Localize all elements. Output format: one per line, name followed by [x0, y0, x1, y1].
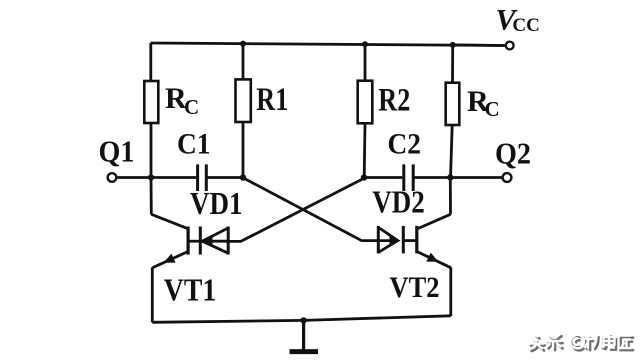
svg-text:C2: C2 — [388, 128, 422, 161]
label RC (right) — [467, 85, 500, 121]
junction: R1-C1 node — [240, 174, 246, 180]
transistor VT1 — [151, 214, 188, 267]
wire: left RC top lead — [149, 43, 152, 82]
wire: R1 top lead — [242, 44, 245, 80]
diode VD2 — [378, 226, 403, 254]
svg-text:Q2: Q2 — [495, 136, 531, 171]
junction: ground node — [300, 317, 306, 323]
svg-text:R2: R2 — [378, 83, 410, 119]
svg-text:Q1: Q1 — [99, 134, 135, 169]
svg-text:CC: CC — [512, 15, 539, 36]
wire: Q1 to C1 left plate — [117, 176, 196, 179]
wire: diagonal from R2 node to VD1 anode — [228, 178, 364, 241]
svg-text:C: C — [184, 95, 199, 119]
resistor R2 — [358, 81, 373, 124]
wire: left RC bottom lead — [150, 123, 153, 178]
wire: Vcc top rail — [151, 43, 506, 46]
resistor R1 — [236, 79, 251, 122]
junction: Q1 node — [148, 174, 154, 180]
wire: bottom emitter rail — [152, 316, 451, 323]
wire: R2 top lead — [364, 44, 367, 81]
watermark — [529, 334, 633, 351]
svg-text:R1: R1 — [256, 82, 288, 118]
wire: VD2 cathode to VT2 base — [403, 239, 417, 242]
wire: Q2 node to VT2 collector — [449, 178, 452, 215]
wire: VD1 cathode to VT1 base — [188, 240, 200, 243]
svg-text:VD1: VD1 — [190, 185, 243, 221]
resistor RC (right) — [446, 83, 460, 125]
wire: R2 bottom lead — [363, 123, 367, 178]
wire: Q1 node to VT1 collector — [150, 178, 153, 215]
svg-text:C: C — [485, 97, 500, 121]
wire: C1 right plate to R1 node — [208, 176, 244, 179]
svg-text:VT1: VT1 — [164, 272, 217, 308]
junction: R2-C2 node — [361, 174, 367, 180]
junction: rail-R2 — [362, 41, 368, 47]
label Vcc — [496, 3, 540, 36]
wire: C2 right plate to Q2 terminal — [414, 176, 502, 179]
wire: right RC top lead — [451, 45, 454, 84]
ground — [290, 320, 319, 351]
wire: right RC bottom lead — [451, 125, 453, 178]
capacitor C1 — [198, 164, 207, 191]
svg-text:VD2: VD2 — [372, 184, 425, 220]
transistor VT2 — [417, 214, 451, 267]
svg-text:C1: C1 — [177, 128, 211, 161]
resistor RC (left) — [144, 81, 158, 123]
capacitor C2 — [404, 164, 413, 191]
svg-text:VT2: VT2 — [390, 271, 440, 304]
wire: diagonal from R1 node to VD2 anode — [244, 178, 378, 240]
terminal Q2 — [503, 173, 512, 182]
diode VD1 — [200, 227, 228, 255]
terminal Q1 — [108, 173, 117, 182]
wire: R1 bottom lead — [242, 122, 245, 178]
wire: VT2 emitter to bottom rail — [449, 267, 452, 316]
wire: VT1 emitter to bottom rail — [151, 267, 154, 322]
junction: rail-RC right — [450, 42, 456, 48]
junction: Q2 node — [447, 174, 453, 180]
wire: Vcc terminal lead — [453, 44, 506, 47]
label RC (left) — [165, 82, 199, 119]
terminal Vcc — [506, 42, 514, 50]
junction: rail-R1 — [240, 41, 246, 47]
wire: R2 node to C2 left plate — [364, 176, 402, 179]
